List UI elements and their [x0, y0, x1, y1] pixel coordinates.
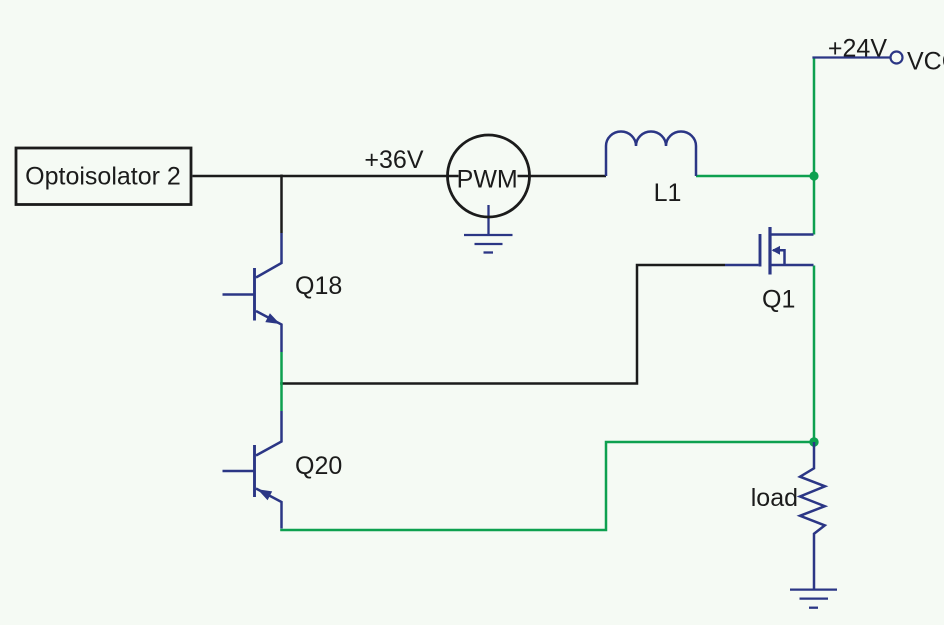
svg-text:Q1: Q1	[762, 286, 795, 314]
svg-text:Q20: Q20	[295, 452, 342, 480]
svg-text:Optoisolator 2: Optoisolator 2	[25, 163, 181, 191]
svg-text:load: load	[751, 484, 798, 512]
svg-text:VCC: VCC	[907, 48, 944, 76]
svg-text:PWM: PWM	[457, 166, 518, 194]
svg-text:+24V: +24V	[828, 35, 887, 63]
svg-text:+36V: +36V	[364, 146, 423, 174]
svg-text:L1: L1	[654, 179, 682, 207]
svg-text:Q18: Q18	[295, 272, 342, 300]
